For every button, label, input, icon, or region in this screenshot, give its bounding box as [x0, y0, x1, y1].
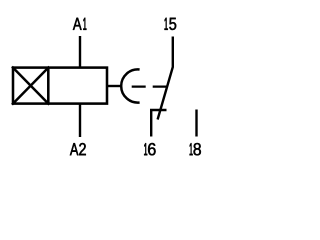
terminal label 16 — [144, 143, 155, 155]
wire A1 lead — [79, 36, 81, 68]
wire terminal 15 lead and contact lever — [158, 37, 173, 120]
terminal label 15 — [165, 18, 177, 30]
coil divider — [47, 68, 50, 104]
terminal label 18 — [190, 143, 201, 155]
terminal 16 contact hook — [151, 110, 166, 137]
coil X diagonal 2 — [12, 67, 49, 105]
terminal label A1 — [73, 18, 87, 30]
wire coil-to-arc stub — [106, 85, 122, 87]
dashed actuation line — [132, 85, 167, 87]
coil outline (relay coil box) — [13, 68, 107, 104]
coil X diagonal 1 — [12, 67, 49, 105]
wire A2 lead — [79, 104, 81, 137]
terminal label A2 — [70, 143, 86, 155]
time-delay arc symbol — [121, 69, 139, 102]
wire terminal 18 lead — [195, 110, 197, 137]
